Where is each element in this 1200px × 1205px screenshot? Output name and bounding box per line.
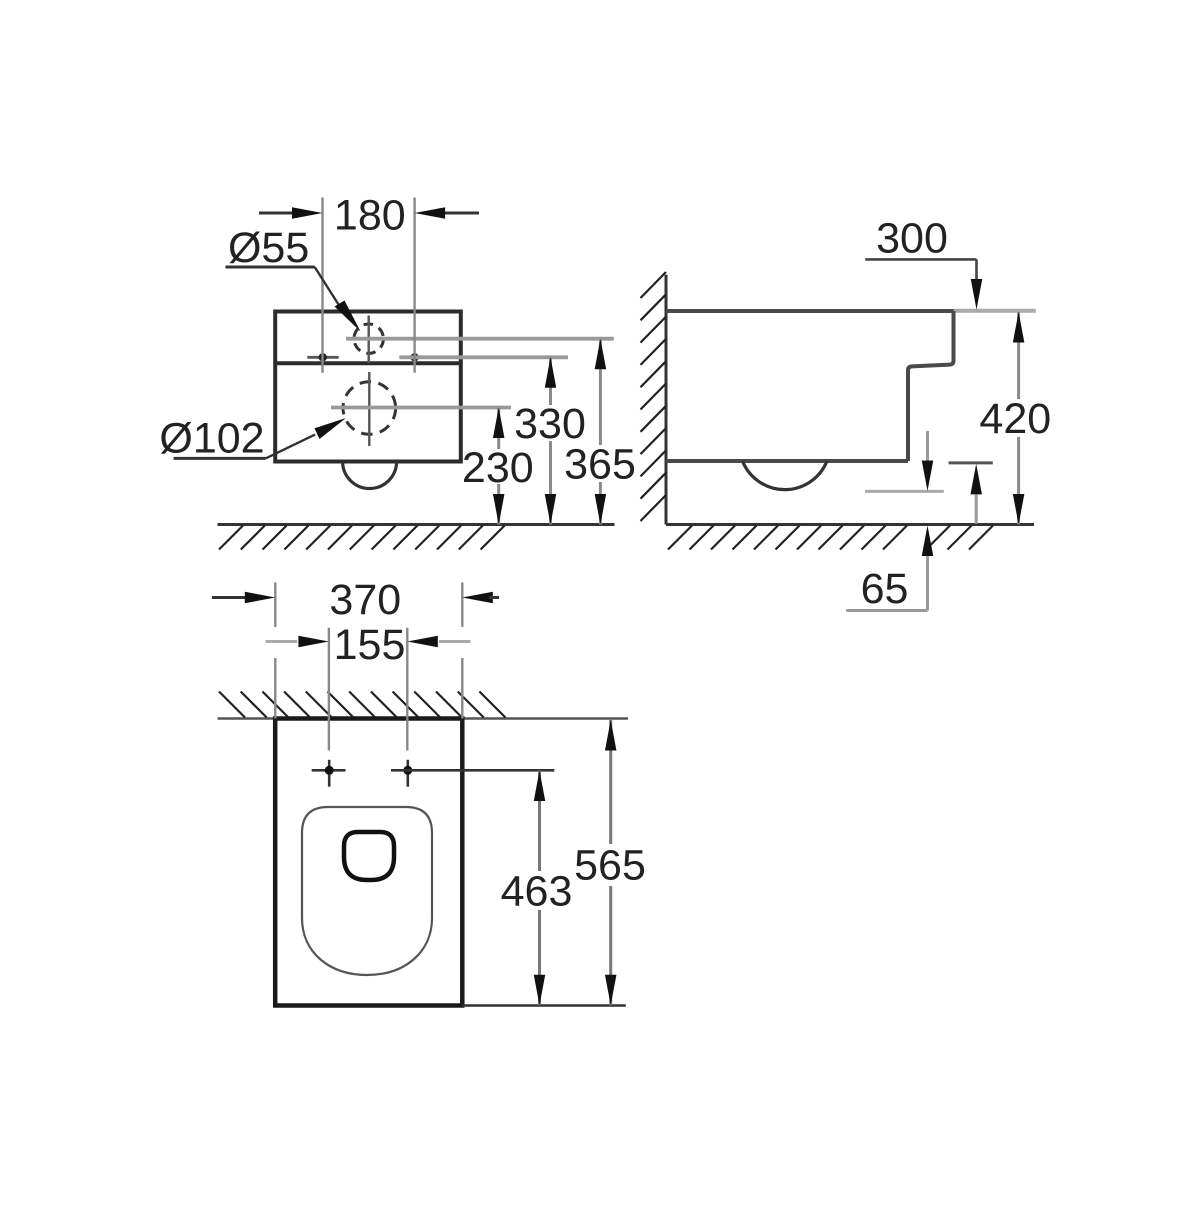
front view: toilet body outline [275,312,461,462]
front view: cistern divider line [275,361,461,365]
side view: toilet bottom surface [666,459,908,463]
side view: wall hatching [641,272,667,521]
label Ø55 with leader arrow [226,224,361,332]
side view: trap outline arc [743,461,828,490]
dimension 180 [259,191,479,372]
svg-text:370: 370 [329,576,401,624]
front view: outlet circle Ø102 [343,372,396,446]
side view: toilet body top surface [666,309,954,313]
side view: top surface extension (gray) [954,309,1036,313]
down arrow to reference line [922,431,934,491]
dimension 463 [501,771,573,1006]
svg-text:300: 300 [876,214,948,262]
dimension 420 [979,312,1051,525]
dimension 300 [865,214,982,309]
plan view: bowl rim outline [302,807,432,975]
extension line from inlet circle to 365 dimension [346,337,614,341]
plan view: flush water outline [344,832,394,880]
reference line 65 above floor [865,490,944,493]
side view: wall line [665,275,668,525]
plan view: wall hatching [219,692,505,718]
svg-text:155: 155 [334,621,406,669]
extension line from right hole to 330 dimension [399,355,568,359]
svg-text:65: 65 [861,565,909,613]
front view: right mounting hole [410,353,418,361]
plan view: left fixing hole [312,760,346,787]
front view: water inlet circle Ø55 [354,316,383,364]
up arrow to bottom surface extension [970,464,982,524]
dimension 565 [574,720,646,1005]
label Ø102 with leader arrow [159,414,346,462]
svg-text:365: 365 [564,441,636,489]
dimension 330 [514,357,586,524]
extension line from outlet circle to 230 dimension [331,406,511,410]
svg-text:565: 565 [574,841,646,889]
dimension 65 leader [846,526,933,613]
front view: floor line [218,523,615,526]
dimension 230 [462,408,534,525]
plan view: toilet outline rectangle [275,719,462,1006]
svg-text:420: 420 [979,395,1051,443]
side view: front profile with step [908,311,954,461]
svg-text:230: 230 [462,444,534,492]
svg-text:463: 463 [501,867,573,915]
extension line of toilet bottom surface (right) [949,461,993,464]
dimension 370 [212,576,499,719]
front view: floor hatching [219,526,505,550]
plan view: wall line [218,717,629,720]
svg-text:Ø102: Ø102 [159,414,264,462]
plan view: right fixing hole [403,760,412,787]
plan view: bottom edge extension line [462,1004,626,1007]
front view: left mounting hole [307,353,338,361]
side view: floor line [666,523,1034,526]
front view: trap outline arc [343,462,397,489]
extension line from right hole to 463 dimension [391,769,554,772]
dimension 365 [564,339,636,525]
dimension 155 [266,621,471,750]
side view: floor hatching [668,526,993,550]
svg-text:Ø55: Ø55 [228,224,309,272]
svg-text:180: 180 [334,191,406,239]
